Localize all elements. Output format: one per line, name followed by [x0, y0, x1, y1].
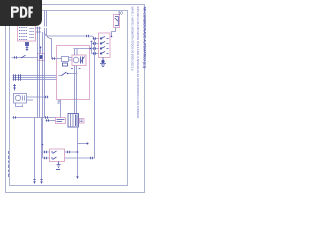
- coil feed ticks: [53, 57, 55, 59]
- motor G circle: [15, 95, 20, 100]
- module K outer pink box: [57, 46, 90, 100]
- PDF badge label (vector): [11, 7, 33, 18]
- fuse F2 top lead dot: [40, 46, 42, 48]
- relay R2 right ticks: [68, 151, 93, 159]
- G inner contact: [23, 96, 25, 101]
- hook lead below G: [16, 103, 23, 107]
- connector X1 right stub ticks: [38, 27, 40, 33]
- source Q lead end dot: [111, 36, 113, 38]
- fuse F2 element: [40, 56, 43, 59]
- coil K1 second box: [63, 63, 68, 66]
- bus left connector ticks: [14, 74, 21, 80]
- fuse F2 top lead: [40, 47, 42, 54]
- junction feed ticks: [46, 116, 49, 121]
- relay R2 contacts: [53, 151, 57, 160]
- relay R2 contact dots: [51, 151, 52, 152]
- battery source Q (terminal 30) pink box: [114, 15, 120, 28]
- wire: coil feed entering module: [52, 58, 62, 60]
- long drop wires to bottom margin: [35, 118, 42, 182]
- drop wire end ticks: [33, 179, 42, 181]
- drop wire arrowheads: [33, 181, 42, 184]
- wire: second feed branch to connector P: [47, 28, 52, 59]
- module top inner wire: [74, 48, 91, 50]
- motor M1 side connector pink: [80, 119, 85, 124]
- connector P switch row 1: [100, 37, 108, 40]
- fuse F3 (below bus): [13, 84, 16, 91]
- distribution left ticks: [14, 116, 16, 118]
- relay R2 feed vertical: [42, 118, 44, 159]
- title block text: sheet title (vertical): [131, 7, 147, 119]
- ground G3 below connector P: [100, 58, 106, 67]
- wire: lower distribution y117.5: [13, 117, 56, 119]
- wire: vertical risers under badge: [45, 11, 47, 27]
- connector P switch row 2: [100, 42, 108, 45]
- pin labels in module: [71, 68, 81, 70]
- motor M1 label: [81, 120, 83, 122]
- connector X1 pin rows right column: [30, 29, 35, 38]
- coil to relay wires: [69, 58, 73, 61]
- relay R2 left wires: [43, 152, 50, 158]
- module internal verticals to motor: [75, 66, 77, 114]
- connector P left stubs: [92, 39, 99, 54]
- branch wire from dot: [91, 42, 93, 54]
- module switch wire: [59, 74, 77, 76]
- connector X1 top bracket: [17, 23, 19, 26]
- module switch contact: [62, 72, 67, 76]
- connector P switch row 4: [100, 52, 108, 55]
- branch stub from motor lead: [78, 143, 88, 145]
- wire: main feed from badge to right vertical: [45, 28, 95, 40]
- motor lead arrowhead: [76, 176, 78, 179]
- relay K1 inner marks: [80, 57, 85, 64]
- relay R2 top-right wire to motor lead: [65, 151, 78, 153]
- module pin label 31: [58, 101, 61, 103]
- connector P switch row 3: [100, 47, 108, 50]
- left margin file label (vertical tiny): [8, 151, 10, 177]
- fuse F2 pink box: [38, 54, 45, 61]
- switch S1 contact: [21, 55, 26, 58]
- ground G2 below relay R2: [56, 162, 61, 170]
- bus wires to module K: [13, 76, 57, 80]
- coil K1 box: [62, 57, 69, 62]
- connector P pink box (4-way): [99, 33, 111, 58]
- vertical wires from feed to distribution: [38, 27, 45, 118]
- relay/motor G box: [14, 94, 27, 104]
- module top inner dot: [90, 48, 92, 50]
- motor M1 ground lead: [77, 127, 79, 177]
- module top leads: [75, 49, 78, 56]
- connector ticks on switch feed: [15, 56, 17, 58]
- module switch node dot: [67, 73, 69, 75]
- source Q lead: [112, 28, 116, 37]
- PDF badge: [0, 0, 149, 198]
- fuse F1 (below X1): [26, 43, 29, 52]
- branch stub junction dot: [87, 143, 89, 145]
- inner drawing frame: [10, 11, 128, 186]
- wire: G output to junction: [27, 96, 49, 98]
- wire: switch feed at y57.5: [12, 57, 38, 59]
- relay R2 pink box: [50, 149, 65, 162]
- connector X1 right stubs: [36, 28, 42, 32]
- long return wire from feed to relay R2: [65, 40, 95, 158]
- blower motor M1 (hatched): [68, 114, 79, 128]
- G output end ticks: [46, 96, 48, 98]
- junction connector pink box: [56, 118, 66, 124]
- relay K1 motor circle: [73, 57, 79, 63]
- G output stub 2: [27, 99, 34, 101]
- connector X1 pin rows left column: [19, 28, 28, 40]
- outer drawing frame: [6, 5, 145, 193]
- feed connector ticks: [87, 35, 89, 37]
- connector P stub ticks: [94, 37, 96, 54]
- junction connector contacts: [57, 120, 65, 122]
- relay R2 left ticks: [45, 151, 47, 159]
- relay K1 inner pink box: [72, 55, 86, 66]
- source Q symbol: [115, 17, 119, 26]
- wire module pin to junction: [60, 100, 62, 118]
- relay feed crossing dot: [42, 144, 44, 146]
- connector X1 (top-left, under badge): [18, 26, 36, 42]
- branch dot on wire y41.5: [91, 41, 93, 43]
